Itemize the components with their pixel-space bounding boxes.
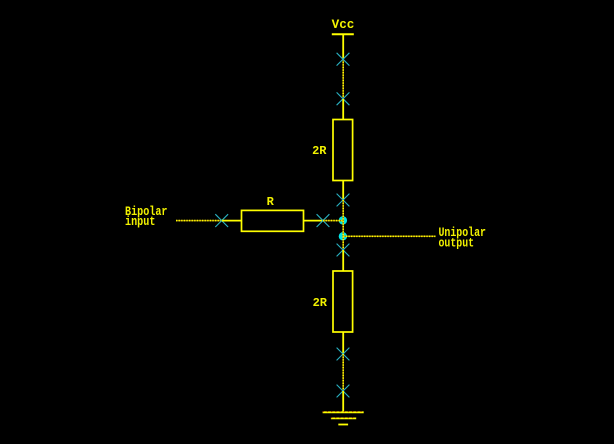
- resistor R2 2R (bottom): [333, 250, 353, 354]
- label Unipolar output: [439, 225, 487, 250]
- junction X at R3 right pin (323,220.6): [317, 214, 330, 227]
- junction X at R3 left pin (221.7,220.6): [215, 214, 228, 227]
- svg-text:2R: 2R: [313, 296, 328, 310]
- wire W4 vertical through node A and B (dotted): [342, 200, 344, 250]
- wire W5 output horizontal from node B (dotted): [343, 235, 435, 237]
- wire W2 input horizontal (dotted): [176, 220, 222, 222]
- svg-text:2R: 2R: [312, 144, 327, 158]
- resistor R1 2R (top): [333, 99, 353, 200]
- wire W3 R3 to node A (dotted): [323, 220, 343, 222]
- svg-text:Vcc: Vcc: [332, 18, 355, 32]
- label Bipolar input: [125, 204, 168, 229]
- wire W6 vertical R2 to ground (dotted): [342, 354, 344, 391]
- svg-text:output: output: [439, 235, 475, 250]
- junction X at Vcc pin (343,59): [337, 53, 350, 66]
- svg-text:input: input: [125, 214, 155, 229]
- junction X at R2 bottom pin (343,354): [337, 348, 350, 361]
- junction X at ground pin (343,391): [337, 385, 350, 398]
- power symbol Vcc bar: [332, 34, 354, 59]
- svg-text:R: R: [267, 195, 275, 209]
- junction dot node B (343,236.3): [339, 232, 347, 240]
- resistor R3 R (series input): [222, 210, 323, 231]
- ground symbol: [323, 391, 364, 425]
- junction X at R1 top pin (343,99): [337, 92, 350, 105]
- junction dot node A (343,220.4): [339, 216, 347, 224]
- junction X at R1 bottom pin (343,200): [337, 194, 350, 207]
- junction X at R2 top pin (343,250): [337, 244, 350, 257]
- wire W1 vertical Vcc to R1 (dotted): [342, 59, 344, 99]
